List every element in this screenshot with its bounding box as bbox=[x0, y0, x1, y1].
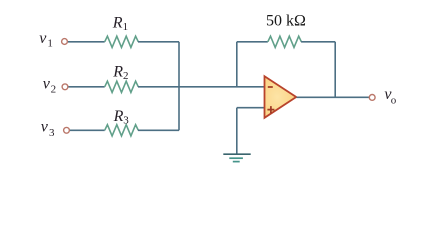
resistor R2 bbox=[105, 81, 139, 92]
svg-text:1: 1 bbox=[123, 21, 129, 33]
svg-text:3: 3 bbox=[123, 114, 129, 126]
terminal v3 bbox=[64, 127, 70, 133]
resistor R3 bbox=[105, 125, 139, 136]
svg-text:o: o bbox=[391, 94, 397, 106]
wire R2 to op-amp inverting input bbox=[138, 86, 265, 88]
terminal v1 bbox=[62, 39, 68, 45]
wire feedback left vertical bbox=[236, 42, 238, 87]
wire v2 to R2 bbox=[69, 86, 105, 88]
wire R3 to bus bbox=[138, 129, 179, 131]
svg-text:R: R bbox=[112, 15, 123, 32]
svg-text:R: R bbox=[113, 108, 124, 125]
resistor R1 bbox=[105, 36, 139, 47]
wire R1 to bus bbox=[138, 41, 179, 43]
svg-text:3: 3 bbox=[49, 127, 55, 139]
wire op-amp noninverting input bbox=[237, 107, 265, 109]
svg-text:2: 2 bbox=[51, 84, 57, 96]
resistor 50 kOhm bbox=[268, 36, 302, 47]
svg-text:R: R bbox=[112, 63, 123, 80]
svg-text:50 kΩ: 50 kΩ bbox=[266, 13, 306, 30]
op-amp U1 bbox=[265, 76, 297, 118]
wire v3 to R3 bbox=[70, 129, 105, 131]
bus wire (vertical summing node) bbox=[178, 42, 180, 131]
terminal vo bbox=[369, 95, 375, 101]
wire v1 to R1 bbox=[68, 41, 105, 43]
svg-text:v: v bbox=[39, 30, 47, 47]
terminal v2 bbox=[62, 84, 68, 90]
wire feedback right vertical bbox=[334, 42, 336, 98]
wire feedback top left bbox=[237, 41, 268, 43]
wire to ground bbox=[236, 108, 238, 154]
svg-text:1: 1 bbox=[47, 37, 53, 49]
svg-text:v: v bbox=[43, 75, 51, 92]
wire op-amp output bbox=[297, 96, 370, 98]
svg-text:v: v bbox=[41, 119, 49, 136]
svg-text:2: 2 bbox=[123, 70, 129, 82]
wire feedback top right bbox=[301, 41, 335, 43]
ground bbox=[223, 154, 250, 161]
